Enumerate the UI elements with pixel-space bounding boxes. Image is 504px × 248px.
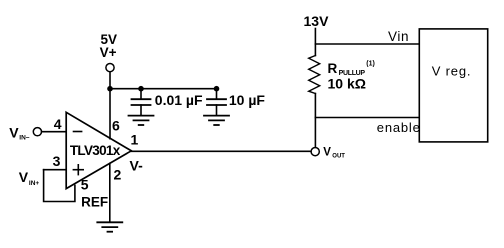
svg-text:10 µF: 10 µF bbox=[229, 92, 266, 108]
svg-text:13V: 13V bbox=[304, 13, 330, 29]
svg-text:R: R bbox=[328, 61, 338, 76]
svg-text:10 kΩ: 10 kΩ bbox=[328, 76, 366, 92]
svg-text:0.01 µF: 0.01 µF bbox=[155, 92, 203, 108]
svg-text:OUT: OUT bbox=[332, 154, 345, 160]
svg-text:REF: REF bbox=[81, 194, 108, 209]
svg-text:6: 6 bbox=[112, 117, 120, 133]
svg-text:(1): (1) bbox=[366, 60, 375, 67]
svg-text:3: 3 bbox=[53, 153, 61, 169]
svg-text:2: 2 bbox=[114, 167, 122, 183]
svg-text:Vin: Vin bbox=[388, 29, 409, 44]
svg-text:4: 4 bbox=[54, 116, 62, 132]
svg-text:enable: enable bbox=[377, 120, 421, 135]
svg-text:IN−: IN− bbox=[19, 135, 30, 142]
svg-text:1: 1 bbox=[131, 132, 139, 148]
svg-text:V: V bbox=[323, 146, 331, 158]
svg-text:V reg.: V reg. bbox=[432, 64, 471, 79]
svg-text:V+: V+ bbox=[100, 45, 117, 60]
svg-text:TLV301x: TLV301x bbox=[70, 143, 121, 158]
svg-text:V: V bbox=[19, 169, 29, 185]
svg-text:V-: V- bbox=[130, 158, 144, 174]
svg-text:V: V bbox=[9, 125, 19, 141]
svg-text:5: 5 bbox=[81, 176, 89, 192]
svg-text:IN+: IN+ bbox=[29, 180, 40, 187]
